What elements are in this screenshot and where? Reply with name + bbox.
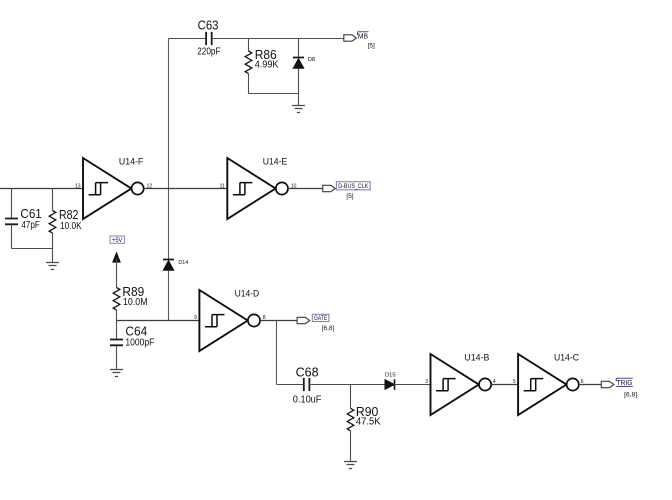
wire U14-D out [260,320,297,322]
inverter U14-F [83,157,144,219]
wire U14-F out to U14-E in [144,188,228,190]
svg-text:[6,8]: [6,8] [624,392,637,399]
svg-text:U14-E: U14-E [263,157,287,168]
wire ground stem C61/R82 [52,249,54,263]
wire C68 to D15 [309,384,385,386]
diode D15 [385,372,396,389]
svg-text:D8: D8 [308,57,316,63]
ground below C64 [110,370,123,377]
ground below D8 [292,106,305,113]
capacitor C63 [197,19,220,58]
inverter U14-B [431,353,492,415]
svg-text:1000pF: 1000pF [125,337,154,348]
capacitor C64 [110,321,154,370]
svg-text:D-BUS_CLK: D-BUS_CLK [338,183,368,190]
wire top horizontal left of C63 [169,38,207,40]
svg-text:U14-D: U14-D [235,289,260,300]
svg-text:3: 3 [425,379,428,385]
wire branch down from U14-D out [276,321,278,385]
svg-text:+5V: +5V [112,238,122,244]
connector flag D-BUS_CLK [323,182,370,200]
svg-text:MB: MB [358,33,369,40]
svg-text:GATE: GATE [314,316,327,322]
wire main input row [0,188,83,190]
diode D8 [293,39,315,106]
wire D15 to U14-B [395,384,431,386]
svg-text:13: 13 [75,183,81,189]
svg-text:0.10uF: 0.10uF [293,394,322,405]
svg-text:C63: C63 [198,19,219,33]
capacitor C68 [293,365,322,405]
wire C61 to R82 bottom [12,248,53,250]
resistor R82 [49,189,82,249]
wire top horizontal right of C63 [212,38,344,40]
connector flag GATE [297,314,334,332]
svg-text:[5]: [5] [346,193,353,200]
svg-text:47pF: 47pF [21,220,39,231]
wire U14-B out to U14-C in [491,384,518,386]
wire to C68 [277,384,304,386]
wire vertical below D14 [168,271,170,321]
ground below R90 [344,462,357,469]
diode D14 [163,260,189,271]
svg-text:4.99K: 4.99K [255,60,279,71]
wire U14-C out [579,384,601,386]
svg-text:[6,8]: [6,8] [322,325,335,332]
inverter U14-E [227,157,288,219]
svg-text:U14-B: U14-B [464,353,489,364]
inverter U14-C [518,353,579,415]
wire R86 bottom to D8 [249,93,299,95]
svg-text:47.5K: 47.5K [356,417,381,428]
svg-text:9: 9 [194,315,197,321]
svg-text:U14-F: U14-F [119,157,144,168]
ground below R82 [46,263,59,270]
wire U14-E out [288,188,323,190]
svg-text:11: 11 [220,183,225,189]
resistor R89 [113,285,147,320]
svg-text:10.0K: 10.0K [60,221,82,232]
connector flag TRIG [601,378,637,398]
svg-text:[5]: [5] [368,42,375,49]
resistor R90 [347,385,381,462]
power +5V [110,236,124,288]
wire vertical feedback x=168.5 lower to D14 [168,189,170,260]
capacitor C61 [5,189,42,249]
svg-text:C68: C68 [296,365,319,379]
svg-text:10.0M: 10.0M [123,297,148,308]
resistor R86 [245,39,279,94]
connector flag MB [344,32,375,50]
inverter U14-D [199,289,260,351]
wire R89 to U14-D input [117,320,200,322]
wire vertical feedback x=168.5 upper [168,39,170,189]
svg-text:5: 5 [513,379,516,385]
svg-text:U14-C: U14-C [554,353,579,364]
svg-text:D14: D14 [178,260,189,266]
svg-text:220pF: 220pF [197,46,220,57]
svg-text:D15: D15 [385,372,396,378]
